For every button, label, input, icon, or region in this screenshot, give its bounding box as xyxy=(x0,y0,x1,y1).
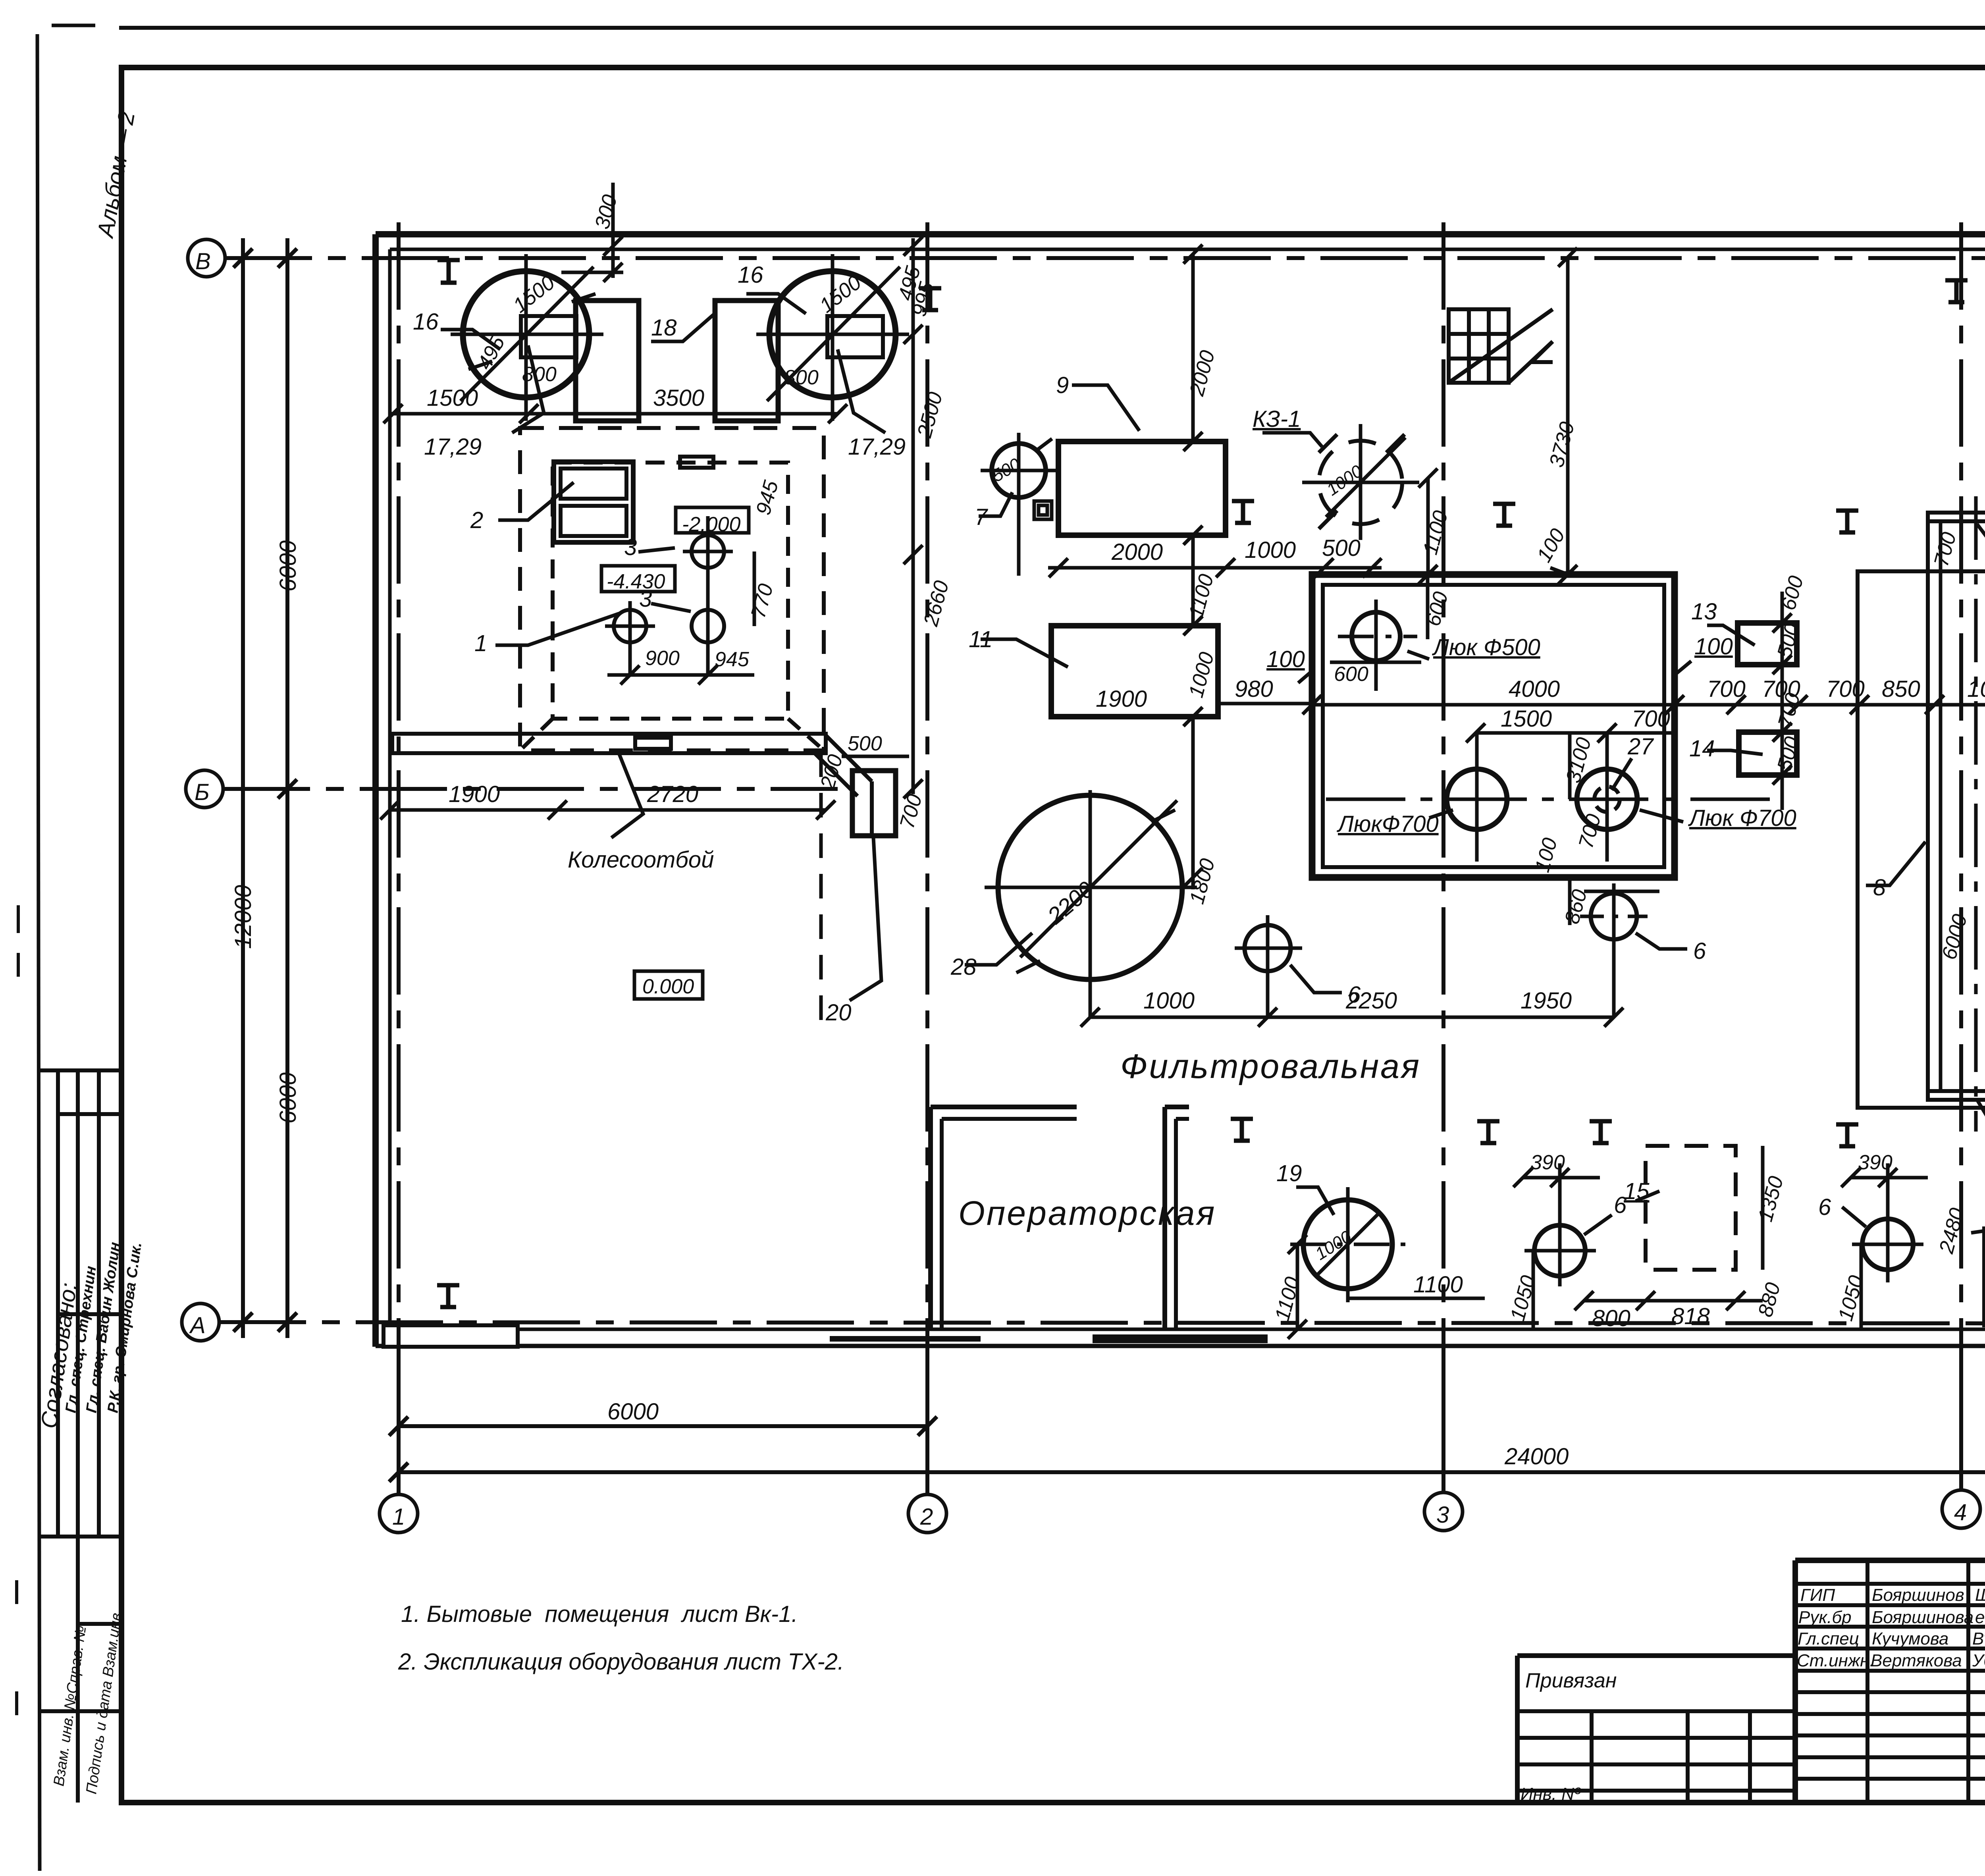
svg-text:2250: 2250 xyxy=(1345,988,1397,1014)
grid axis 3 vertical dash-dot xyxy=(1442,222,1445,1350)
left annex row b xyxy=(1517,1736,1795,1740)
signature row line 2 xyxy=(1795,1603,1985,1607)
pump 3 upper centerlines xyxy=(683,550,733,553)
floor drain 6b circle xyxy=(1591,893,1637,939)
level box -2.000 xyxy=(676,507,749,533)
leader 7 xyxy=(979,492,1012,516)
conveyor 8 strip left inner line xyxy=(1939,520,1943,1092)
conveyor 8 strip left line xyxy=(1926,513,1930,1100)
svg-text:1900: 1900 xyxy=(1096,686,1147,712)
svg-text:1. Бытовые помещения лист Вк: 1. Бытовые помещения лист Вк-1. xyxy=(401,1601,798,1627)
tank 16 left horizontal centerline xyxy=(451,333,603,336)
tick 390d xyxy=(1878,1168,1897,1187)
wheel stop end vertical xyxy=(870,781,874,836)
settling basin inner rect xyxy=(1323,585,1664,867)
conveyor 8 strip top bar xyxy=(1928,513,1985,521)
tank 7 vertical centerline xyxy=(1017,433,1021,576)
svg-text:600: 600 xyxy=(1334,663,1368,686)
leader 20 xyxy=(850,838,881,1001)
KZ-1 dashed circle xyxy=(1319,441,1402,524)
leader 16 right xyxy=(746,294,806,314)
svg-text:945: 945 xyxy=(715,648,750,671)
svg-text:28: 28 xyxy=(950,954,977,980)
svg-text:Б: Б xyxy=(195,779,210,805)
svg-text:27: 27 xyxy=(1627,734,1654,760)
leader 6a xyxy=(1290,965,1342,993)
tick axis B on 12000 line xyxy=(233,249,252,268)
sidebar column line c xyxy=(97,1070,101,1537)
leader 17,29 left xyxy=(512,345,544,433)
building bottom wall outer line xyxy=(376,1344,1985,1348)
dim 770 vertical xyxy=(753,551,756,626)
floor drain circle 6a xyxy=(1245,925,1291,971)
drain 6b h centerline xyxy=(1580,915,1648,918)
dim 300 tick top xyxy=(603,237,622,256)
tick 1100b xyxy=(1288,1320,1307,1339)
wheel stop bar (kolesootboy) xyxy=(392,734,826,753)
leader 19 xyxy=(1296,1187,1334,1215)
sidebar table top line xyxy=(39,1068,121,1072)
equipment 20 rect xyxy=(852,771,896,836)
drain 6c v centerline xyxy=(1558,1163,1562,1286)
dim 390 line 6d xyxy=(1851,1176,1928,1180)
svg-text:ЛюкФ700: ЛюкФ700 xyxy=(1336,811,1439,837)
svg-text:15: 15 xyxy=(1624,1178,1650,1204)
leader 16 left xyxy=(441,330,500,349)
floor drain 6d circle xyxy=(1862,1219,1913,1270)
dim 600 rot line vertical xyxy=(1426,575,1430,639)
leader 6b xyxy=(1636,933,1687,949)
fold mark top-left xyxy=(52,24,95,27)
svg-text:500: 500 xyxy=(848,732,882,755)
bottom dimension line 24000 xyxy=(399,1470,1985,1474)
svg-text:1500: 1500 xyxy=(1501,706,1552,732)
leader 13 xyxy=(1707,625,1755,645)
dashed pit 15 rect xyxy=(1646,1146,1736,1270)
drain 6a v centerline xyxy=(1266,915,1270,1016)
tick 6000 left xyxy=(389,1417,408,1436)
tick 850a xyxy=(1925,695,1944,714)
title block signature left border xyxy=(1792,1560,1798,1803)
tick chain tank center xyxy=(904,325,923,344)
tick chain axis Bb xyxy=(904,779,923,798)
signature row line 10 xyxy=(1795,1777,1985,1781)
signature row line 6 xyxy=(1795,1690,1985,1694)
tick 14 bottom xyxy=(1773,765,1792,785)
sludge tank 28 circle xyxy=(998,795,1182,979)
I-beam column low row b xyxy=(1477,1121,1499,1143)
operator room right wall top cap xyxy=(1165,1105,1189,1109)
grid axis B horizontal dash-dot xyxy=(225,256,1985,260)
dim 900-945 line xyxy=(607,673,754,677)
grid axis 1 circle xyxy=(380,1494,418,1533)
svg-text:3: 3 xyxy=(624,534,637,560)
tick 800b xyxy=(1636,1291,1655,1310)
vertical dim chain x3005 upper xyxy=(1191,254,1195,442)
svg-text:1: 1 xyxy=(392,1504,405,1530)
grid axis 1 lower extension xyxy=(397,1347,401,1494)
manhole 700 right circle xyxy=(1577,769,1637,829)
svg-text:Бояршинов: Бояршинов xyxy=(1872,1585,1964,1605)
tick 3500 right xyxy=(828,404,847,423)
grid axis 2 vertical dash-dot xyxy=(925,222,929,1350)
bottom wall gate sill segment between axis 1 and 2 xyxy=(830,1336,981,1342)
title block col line name xyxy=(1866,1560,1869,1803)
svg-text:17,29: 17,29 xyxy=(848,434,906,460)
pump circle 3 lower-left xyxy=(614,610,646,642)
tick 1000 r xyxy=(1314,558,1334,577)
svg-text:11: 11 xyxy=(969,627,992,652)
operator room left wall inner xyxy=(940,1119,944,1329)
dim 300 lower bound line xyxy=(561,271,623,274)
svg-text:1500: 1500 xyxy=(427,385,478,411)
I-beam column low row a xyxy=(1231,1119,1253,1141)
flotation tank 18 right rect xyxy=(715,301,778,421)
left dimension line 12000 vertical xyxy=(241,238,245,1338)
ticks 945 xyxy=(698,665,717,684)
left annex left border xyxy=(1515,1656,1520,1803)
svg-text:700: 700 xyxy=(1632,706,1670,732)
svg-text:12000: 12000 xyxy=(230,885,256,949)
tick axis A on 6000 line xyxy=(278,1313,297,1332)
leader 18 xyxy=(651,314,715,341)
svg-text:1000: 1000 xyxy=(1245,537,1296,563)
dim line 980 xyxy=(1218,702,1312,706)
dim 390 line 6c xyxy=(1523,1176,1600,1180)
tick 1900 left xyxy=(380,800,399,819)
drain 19 v centerline xyxy=(1346,1187,1350,1302)
svg-text:Рук.бр: Рук.бр xyxy=(1798,1608,1852,1627)
svg-text:4000: 4000 xyxy=(1509,676,1560,702)
pump 3 lr vertical xyxy=(706,516,710,675)
tick 3730 bottom xyxy=(1558,565,1577,584)
dim line 1500-700 xyxy=(1476,731,1675,735)
leader 17,29 right xyxy=(838,349,885,433)
svg-text:700: 700 xyxy=(1707,676,1746,702)
tick 390c xyxy=(1841,1168,1860,1187)
svg-text:20: 20 xyxy=(825,1000,852,1026)
tick 390b xyxy=(1550,1168,1569,1187)
svg-text:Вуцуш: Вуцуш xyxy=(1972,1629,1985,1648)
pump circle 3 lower-right xyxy=(692,610,724,642)
signature row line 8 xyxy=(1795,1733,1985,1737)
svg-text:3: 3 xyxy=(639,586,652,612)
signature row line 1 xyxy=(1795,1582,1985,1586)
manhole 700 left circle xyxy=(1447,769,1507,829)
svg-text:6: 6 xyxy=(1818,1194,1831,1220)
sidebar section line xyxy=(39,1535,121,1539)
manhole 500 circle xyxy=(1352,612,1400,661)
svg-text:390: 390 xyxy=(1858,1151,1892,1174)
grid axis Bb horizontal dash-dot xyxy=(223,787,838,791)
dim line 4000 and 700 chain xyxy=(1312,703,1985,707)
drain 6d v centerline xyxy=(1886,1163,1890,1282)
tank 16 left tick a xyxy=(468,361,492,369)
pit inner dashed rect xyxy=(553,463,788,719)
leader 100 mid xyxy=(1550,568,1566,574)
conveyor 8 centerline dash-dot xyxy=(1974,496,1978,1132)
dim 1050 vert 6d xyxy=(1860,1244,1863,1329)
svg-text:6000: 6000 xyxy=(275,540,301,592)
I-beam column top bay2 xyxy=(919,288,941,310)
svg-text:6000: 6000 xyxy=(275,1072,301,1124)
grid axis A circle xyxy=(182,1303,219,1341)
vertical dim chain x3005 mid xyxy=(1191,535,1195,626)
tick 3730 top xyxy=(1558,248,1577,267)
svg-text:2000: 2000 xyxy=(1111,539,1163,565)
svg-text:Люк Ф500: Люк Ф500 xyxy=(1432,634,1540,660)
tick 1500 left xyxy=(384,404,403,423)
KZ-1 diagonal xyxy=(1326,438,1405,517)
leader kolesootboy xyxy=(611,754,643,838)
right vertical dim chain line xyxy=(912,238,915,794)
KZ-1 leader xyxy=(1262,433,1322,447)
svg-text:Привязан: Привязан xyxy=(1525,1669,1617,1692)
tick 500 r xyxy=(1363,558,1382,577)
grid axis 3 lower extension xyxy=(1442,1347,1445,1492)
tick 24000 left xyxy=(389,1463,408,1482)
svg-text:1: 1 xyxy=(474,630,487,656)
operator room right wall inner cap xyxy=(1176,1117,1189,1121)
chain tick basin bottom xyxy=(1183,868,1203,887)
grid axis Bb circle xyxy=(186,770,223,808)
tick 818b xyxy=(1726,1291,1745,1310)
sheet outer left edge line xyxy=(37,34,40,1871)
KZ-1 cross tick ne xyxy=(1386,434,1405,453)
grid axis 1 vertical dash-dot xyxy=(397,222,401,1350)
left annex row d xyxy=(1517,1789,1795,1793)
flotation tank 18 left rect xyxy=(576,301,639,421)
dim 1900-2720 line xyxy=(390,808,826,812)
svg-text:Бояршинова: Бояршинова xyxy=(1872,1608,1973,1627)
svg-text:2: 2 xyxy=(470,507,483,533)
tick d1 xyxy=(1081,1008,1100,1027)
signature row line 9 xyxy=(1795,1755,1985,1759)
svg-text:818: 818 xyxy=(1671,1303,1710,1329)
KZ-1 cross tick sw xyxy=(1319,511,1337,529)
drain 6c h centerline xyxy=(1524,1249,1596,1253)
leader 9 xyxy=(1072,385,1139,431)
I-beam column low row c xyxy=(1590,1121,1612,1143)
operator room top wall outer xyxy=(931,1105,1077,1109)
tank 16 left tick b xyxy=(572,294,595,302)
svg-text:1950: 1950 xyxy=(1521,988,1572,1014)
tick 1100 bottom xyxy=(1418,565,1438,584)
tick 14 top xyxy=(1773,723,1792,742)
svg-text:ГИП: ГИП xyxy=(1800,1585,1835,1605)
leader label 2 xyxy=(498,482,574,520)
fold mark left middle xyxy=(17,905,20,977)
bottom wall pier left of axis 1 xyxy=(384,1325,518,1347)
svg-text:24000: 24000 xyxy=(1504,1444,1569,1469)
pump circle 3 upper xyxy=(692,535,724,568)
chain tick wall xyxy=(1183,245,1203,264)
svg-text:1100: 1100 xyxy=(1413,1272,1463,1298)
conveyor 8 strip bottom bar xyxy=(1928,1091,1985,1100)
vertical dim line through 13/14 xyxy=(1781,592,1784,810)
svg-text:3: 3 xyxy=(1436,1502,1449,1528)
I-beam column mid b xyxy=(1493,504,1515,526)
tank 16 right horizontal centerline xyxy=(756,333,909,336)
svg-text:Кучумова: Кучумова xyxy=(1872,1629,1948,1648)
svg-text:2720: 2720 xyxy=(647,781,698,807)
sidebar column line b xyxy=(76,1070,80,1803)
tank 16 left circle xyxy=(463,271,589,397)
svg-text:6: 6 xyxy=(1693,938,1706,964)
tank 28 vertical centerline xyxy=(1089,790,1092,1016)
chain tick rect9 top xyxy=(1183,432,1203,451)
dim 1100 vertical right of KZ-1 xyxy=(1426,478,1430,575)
grid axis B circle xyxy=(188,239,225,277)
svg-text:850: 850 xyxy=(1882,676,1920,702)
dim 100 leader top-right of basin xyxy=(1675,661,1691,675)
tick 2000 r xyxy=(1216,558,1235,577)
drain square inner xyxy=(1039,505,1047,515)
tick d2 xyxy=(1258,1008,1277,1027)
dim 100 leader top-left of basin xyxy=(1298,671,1312,683)
settling basin outer rect xyxy=(1312,575,1675,877)
grid axis A horizontal dash-dot xyxy=(219,1322,1985,1324)
building top wall inner line xyxy=(390,248,1985,251)
drain 6d h centerline xyxy=(1852,1243,1923,1246)
leader 14 xyxy=(1707,750,1763,754)
svg-text:4: 4 xyxy=(1954,1500,1967,1525)
svg-text:8: 8 xyxy=(1873,875,1886,900)
leader 8 xyxy=(1866,842,1925,885)
I-beam column mid c xyxy=(1836,511,1858,532)
svg-text:800: 800 xyxy=(1592,1305,1630,1331)
signature row line 5 xyxy=(1795,1669,1985,1673)
tank 16 right vertical centerline xyxy=(831,254,834,421)
tick chain wall xyxy=(904,237,923,256)
grid axis 3 circle xyxy=(1424,1492,1463,1531)
leader 15 xyxy=(1636,1191,1659,1201)
svg-text:100: 100 xyxy=(1694,634,1733,659)
tick chain pit top xyxy=(904,545,923,564)
building top wall outer line xyxy=(376,231,1985,237)
drain 6b v centerline xyxy=(1612,883,1616,1016)
I-beam column top bay1 xyxy=(437,260,460,283)
dim 500 line above 20 xyxy=(842,755,909,758)
pit outer dashed rect xyxy=(520,428,824,750)
svg-text:1000: 1000 xyxy=(1143,988,1195,1014)
dim 860 vertical below basin xyxy=(1568,877,1572,925)
svg-text:7: 7 xyxy=(975,504,989,530)
svg-text:3500: 3500 xyxy=(653,385,704,411)
wheel stop diagonal lower xyxy=(815,753,858,796)
svg-text:14: 14 xyxy=(1689,736,1715,762)
I-beam column bottom left xyxy=(437,1285,459,1307)
tick 1500 l xyxy=(1466,723,1485,742)
svg-text:КЗ-1: КЗ-1 xyxy=(1253,406,1301,432)
dim line 1000-2250-1950 xyxy=(1090,1016,1614,1019)
tick 700a xyxy=(1727,695,1746,714)
left annex col b xyxy=(1686,1711,1690,1803)
leader 100 bottom xyxy=(1977,1100,1985,1120)
stairs symbol diagonal xyxy=(1449,309,1553,383)
svg-text:16: 16 xyxy=(413,309,439,335)
label 27 leader xyxy=(1612,758,1632,790)
floor drain 6c circle xyxy=(1534,1225,1585,1276)
left annex top line xyxy=(1517,1653,1795,1658)
pit bottom small notch xyxy=(635,738,671,749)
leader label 1 xyxy=(495,613,619,645)
tank 28 horizontal centerline xyxy=(985,886,1197,889)
signature row line 4 xyxy=(1795,1647,1985,1650)
tank 7 diagonal tick xyxy=(1036,439,1052,451)
tank 16 right circle xyxy=(769,271,896,397)
svg-text:ешеш: ешеш xyxy=(1975,1608,1985,1627)
tick 1100 top xyxy=(1418,469,1438,488)
svg-text:6000: 6000 xyxy=(607,1399,659,1425)
svg-text:19: 19 xyxy=(1276,1161,1302,1186)
dim 300 vertical line xyxy=(611,183,615,278)
manhole 700 right v centerline xyxy=(1605,735,1609,862)
pit corner diagonal bottom-right xyxy=(788,719,823,750)
svg-text:Вертякова: Вертякова xyxy=(1871,1651,1962,1670)
svg-text:0.000: 0.000 xyxy=(642,975,694,998)
manhole 500 h centerline xyxy=(1338,635,1417,638)
dim line 2000-1000-500 xyxy=(1048,566,1382,570)
svg-text:13: 13 xyxy=(1691,599,1717,625)
sidebar column line a xyxy=(56,1070,60,1537)
operator room top wall inner xyxy=(942,1117,1077,1121)
basin bottom small step xyxy=(1584,890,1659,893)
sheet outer top edge line xyxy=(119,26,1985,30)
manhole 700 left leader xyxy=(1429,810,1453,818)
KZ-1 cross tick nw xyxy=(1319,434,1337,453)
svg-text:390: 390 xyxy=(1530,1151,1565,1174)
sidebar header row line xyxy=(58,1112,121,1116)
dim 1100 vert left of 19 xyxy=(1296,1244,1299,1329)
stairs symbol grid xyxy=(1449,309,1509,383)
tank 28 diag tick a xyxy=(1016,961,1040,973)
equipment 2 lower inner rect xyxy=(561,506,626,536)
tank 16 left inner rect xyxy=(521,316,576,357)
equipment 13 rect xyxy=(1738,623,1797,665)
KZ-1 vertical centerline xyxy=(1359,424,1363,540)
svg-text:Ублш: Ублш xyxy=(1972,1651,1985,1670)
signature row line 3 xyxy=(1795,1625,1985,1629)
level box -4.430 xyxy=(601,566,675,592)
tick axis Bb on 6000 line xyxy=(278,779,297,798)
tick 2720 right xyxy=(816,800,835,819)
bottom dimension line 6000 (axis1-axis2) xyxy=(399,1424,927,1428)
sidebar lower row line b xyxy=(39,1709,121,1713)
operator room right wall inner xyxy=(1174,1119,1178,1329)
leader 100 top xyxy=(1977,524,1985,540)
dim line 1500-3500 xyxy=(388,412,838,416)
grid axis 4 circle xyxy=(1942,1490,1980,1528)
svg-text:980: 980 xyxy=(1235,676,1273,702)
tick 700c xyxy=(1850,695,1869,714)
building left wall outer line xyxy=(372,234,379,1347)
dim 300 tick bottom xyxy=(603,263,622,282)
tick d3 xyxy=(1604,1008,1623,1027)
pit top small notch xyxy=(680,457,713,468)
dim 1100 horiz line right of 19 xyxy=(1348,1297,1485,1300)
svg-text:Колесоотбой: Колесоотбой xyxy=(568,847,714,873)
leader 6d xyxy=(1842,1207,1866,1227)
manhole 700 right inner dashed circle xyxy=(1594,787,1620,812)
svg-text:Ст.инжн.: Ст.инжн. xyxy=(1797,1651,1875,1670)
floor drain 19 circle xyxy=(1303,1200,1392,1289)
svg-text:-2.000: -2.000 xyxy=(682,513,741,536)
equipment 2 outer rect xyxy=(554,462,633,542)
chain tick rect9 bottom xyxy=(1183,526,1203,545)
tank 28 diameter diagonal xyxy=(1020,800,1177,957)
left annex col c xyxy=(1748,1711,1752,1803)
